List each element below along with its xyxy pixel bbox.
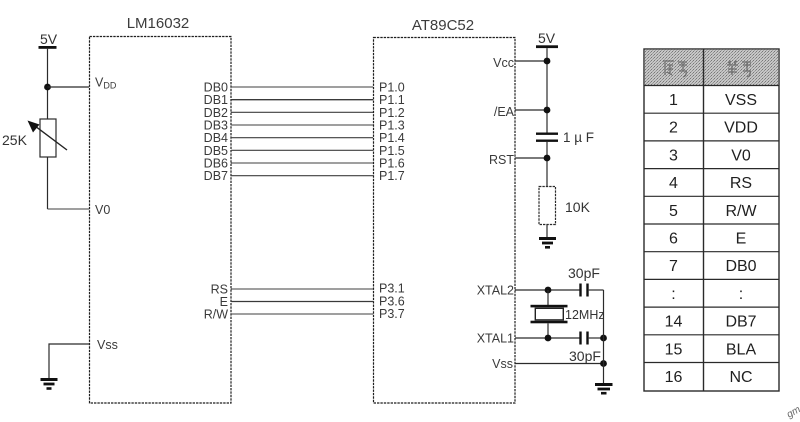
svg-text:DB7: DB7 (204, 169, 228, 183)
ground symbol (right) (595, 385, 613, 394)
svg-text:25K: 25K (2, 132, 28, 148)
ground symbol (middle) (539, 239, 556, 248)
svg-text:/EA: /EA (494, 105, 515, 119)
node junction rail Vss (600, 360, 607, 367)
wire bus DB1-P1.1 (231, 99, 373, 101)
svg-text:V0: V0 (95, 203, 110, 217)
svg-text:XTAL1: XTAL1 (477, 332, 514, 346)
wire Vss (U2) to rail (515, 363, 604, 365)
power rail bar 5V (right) (536, 45, 558, 48)
pin table row lines (644, 86, 779, 363)
capacitor C3 plates (579, 332, 588, 345)
pin table header background (645, 50, 779, 86)
potentiometer R1 wiper arrow (31, 123, 67, 150)
svg-text:15: 15 (665, 341, 683, 358)
svg-text:10K: 10K (565, 199, 591, 215)
svg-text:12MHz: 12MHz (565, 308, 605, 322)
potentiometer R1 25K body (40, 119, 56, 157)
svg-text:2: 2 (669, 120, 678, 137)
wire V0 to U1 (48, 208, 90, 210)
svg-text:AT89C52: AT89C52 (412, 17, 474, 34)
wire 5V rail down (left) (47, 49, 49, 209)
wire crystal bottom lead (547, 323, 549, 338)
pin table rows text (665, 92, 758, 386)
node junction RST (544, 155, 551, 162)
svg-text:XTAL2: XTAL2 (477, 284, 514, 298)
svg-text:R/W: R/W (204, 308, 229, 322)
pin table column divider (703, 49, 705, 391)
node junction XTAL1 (545, 335, 552, 342)
svg-text:DB7: DB7 (725, 314, 756, 331)
capacitor C2 plates (579, 284, 588, 297)
svg-text:30pF: 30pF (569, 348, 601, 364)
svg-text:P3.1: P3.1 (379, 282, 405, 296)
svg-text:Vss: Vss (97, 338, 118, 352)
wire bus DB3-P1.3 (231, 124, 373, 126)
svg-text:RST: RST (489, 153, 514, 167)
wire cap to RST (546, 142, 548, 187)
svg-text:4: 4 (669, 175, 678, 192)
svg-text:VSS: VSS (725, 92, 757, 109)
wire /EA to U2 (515, 109, 547, 111)
svg-text:30pF: 30pF (568, 265, 600, 281)
svg-text:7: 7 (669, 258, 678, 275)
ground symbol (left) (41, 380, 58, 389)
svg-text:5V: 5V (40, 31, 58, 47)
svg-text:16: 16 (665, 369, 683, 386)
svg-text:E: E (736, 231, 747, 248)
svg-text:5V: 5V (538, 30, 556, 46)
svg-text:P3.7: P3.7 (379, 307, 405, 321)
node junction /EA (544, 107, 551, 114)
svg-text:1: 1 (669, 92, 678, 109)
IC U1 body LM16032 (90, 37, 232, 404)
svg-text:P1.7: P1.7 (379, 169, 405, 183)
wire resistor to ground (546, 225, 548, 238)
IC U2 body AT89C52 (374, 38, 516, 404)
node junction VDD (44, 84, 51, 91)
wire R/W-P3.7 (231, 313, 373, 315)
svg-text:LM16032: LM16032 (127, 15, 190, 32)
svg-text:V0: V0 (731, 147, 751, 164)
svg-text:R/W: R/W (725, 203, 757, 220)
svg-text:3: 3 (669, 147, 678, 164)
node junction rail XTAL1 (600, 335, 607, 342)
svg-text:gm: gm (785, 404, 800, 420)
svg-text:Vss: Vss (492, 357, 513, 371)
wire right rail (603, 290, 605, 383)
wire bus DB4-P1.4 (231, 137, 373, 139)
wire bus DB7-P1.7 (231, 175, 373, 177)
crystal Y1 12MHz (531, 305, 568, 324)
svg-text:NC: NC (729, 369, 752, 386)
node junction XTAL2 (545, 287, 552, 294)
wire VDD to U1 (48, 86, 90, 88)
wire E-P3.6 (231, 301, 373, 303)
svg-text:Vcc: Vcc (493, 56, 514, 70)
svg-text:VDD: VDD (95, 76, 117, 91)
wire Vcc to U2 (515, 60, 547, 62)
pin table header text 序号 (663, 61, 687, 77)
wire bus DB6-P1.6 (231, 162, 373, 164)
wire 5V rail down to cap (546, 48, 548, 133)
wire bus DB0-P1.0 (231, 86, 373, 88)
svg-text:RS: RS (730, 175, 752, 192)
wire bus DB2-P1.2 (231, 111, 373, 113)
pin table frame (644, 49, 779, 391)
capacitor C1 plates (536, 133, 558, 142)
svg-text:DB0: DB0 (725, 258, 756, 275)
wire cap C2 to rail (589, 289, 604, 291)
svg-text:5: 5 (669, 203, 678, 220)
wire crystal top lead (547, 290, 549, 306)
svg-text:6: 6 (669, 231, 678, 248)
power rail bar 5V (left) (39, 46, 57, 49)
wire Vss from U1 (49, 344, 89, 378)
pin table header text 符号 (727, 61, 751, 77)
wire RS-P3.1 (231, 288, 373, 290)
wire cap C3 to rail (589, 337, 604, 339)
wire RST to U2 (515, 157, 547, 159)
svg-text:VDD: VDD (724, 120, 758, 137)
wire XTAL2 to cap C2 (515, 289, 580, 291)
svg-text::: : (739, 286, 743, 303)
svg-text:BLA: BLA (726, 341, 757, 358)
wire bus DB5-P1.5 (231, 149, 373, 151)
node junction Vcc (544, 58, 551, 65)
svg-text::: : (671, 286, 675, 303)
svg-text:14: 14 (665, 314, 683, 331)
svg-text:1 µ F: 1 µ F (563, 130, 594, 145)
wire XTAL1 to cap C3 (515, 337, 580, 339)
resistor R2 10K body (539, 187, 556, 225)
